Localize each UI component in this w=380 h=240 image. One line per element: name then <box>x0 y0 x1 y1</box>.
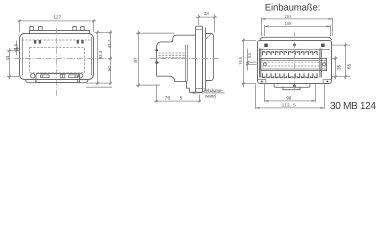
svg-text:41.7: 41.7 <box>107 39 112 48</box>
dim 65 extensions <box>332 44 350 46</box>
inner verticals before flange <box>186 45 188 82</box>
hinge tab 1 <box>30 27 34 31</box>
svg-text:93.3: 93.3 <box>98 50 103 59</box>
terminal clamps bottom row <box>262 73 317 77</box>
dim 3.5 extension lines left <box>7 49 19 51</box>
lid top strip <box>30 31 90 34</box>
svg-text:44: 44 <box>5 55 10 60</box>
bottom latch bar <box>36 74 80 83</box>
hinge hook tooth 1 <box>34 40 36 44</box>
dim 110 line <box>262 18 333 20</box>
dim 127 tick right <box>92 20 94 22</box>
svg-text:110: 110 <box>284 14 291 19</box>
dim 127 extension right <box>93 20 95 33</box>
gehaeusewand leader arrow <box>192 92 196 94</box>
side profile lid outline <box>157 35 197 76</box>
bottom foot right <box>323 80 331 84</box>
dim right mid extension (latch) <box>86 82 112 84</box>
dim 65 line <box>345 43 347 80</box>
dim 87 line <box>138 31 140 88</box>
gehaeusewand leader line <box>192 92 225 94</box>
svg-text:3.5: 3.5 <box>13 43 18 50</box>
back box behind wall <box>206 34 214 81</box>
svg-text:Einbaumaße:: Einbaumaße: <box>265 3 320 14</box>
wall lines <box>203 28 206 91</box>
back box corner hatch <box>206 34 212 40</box>
inst box outline <box>258 41 332 84</box>
inst vertical centerline <box>294 32 296 92</box>
dim 35 line <box>335 56 337 79</box>
dim 3.5 line <box>16 41 18 56</box>
dim 65 ticks <box>344 44 346 78</box>
dim 112.5 line <box>256 107 325 109</box>
inst box top raised lip <box>260 37 332 40</box>
bottom right screw tab <box>78 80 88 83</box>
latch slot right <box>69 75 78 78</box>
dim 87 ticks <box>137 32 139 86</box>
latch center detail <box>60 74 65 78</box>
svg-text:76.5: 76.5 <box>238 56 243 65</box>
dim 76.5 extension left <box>156 84 158 102</box>
hinge tab 4 <box>81 27 85 31</box>
svg-text:wand: wand <box>205 94 216 99</box>
dim 44 line <box>9 48 11 79</box>
dim 3.5 ticks <box>15 47 17 52</box>
dim 127 extension left <box>19 20 21 33</box>
bottom center tab inner <box>283 87 300 89</box>
bottom center tab outer <box>274 84 310 88</box>
svg-text:98: 98 <box>286 96 291 101</box>
dim 127 line <box>18 20 97 22</box>
dim 3.5 right-view ticks <box>246 61 248 66</box>
terminal end plate right <box>320 49 321 78</box>
dim 112.5 extensions <box>256 84 325 109</box>
latch slot left <box>41 75 50 78</box>
dim 76.5 right-view ticks <box>242 39 244 84</box>
svg-text:105: 105 <box>285 21 293 26</box>
dim 112.5 arrows <box>256 107 325 109</box>
side view 87 top extension <box>136 32 174 34</box>
svg-text:50: 50 <box>107 66 112 71</box>
dim 76.5 right-view extensions <box>242 41 257 84</box>
horizontal centerline front view <box>15 58 113 60</box>
dim 98 extensions <box>265 84 316 102</box>
svg-text:3.5: 3.5 <box>247 52 252 58</box>
dim 35 ticks <box>334 57 336 78</box>
dim 28 line with overhangs <box>196 16 218 18</box>
dim 105 arrows <box>265 25 331 27</box>
dim 28 extension left <box>198 14 200 25</box>
dim 44 ticks <box>8 50 10 78</box>
dim 93.3 / 41.7 top extension <box>95 32 113 34</box>
hidden opening dashed rect <box>30 48 85 73</box>
terminal end plate left <box>259 49 260 78</box>
svg-text:28: 28 <box>204 11 210 16</box>
terminal bar screw right <box>323 63 326 66</box>
hidden socket dashed lines <box>159 53 185 58</box>
dim 127 tick left <box>18 20 20 22</box>
svg-text:112. 5: 112. 5 <box>282 103 296 108</box>
hinge hook tooth 2 <box>39 40 41 44</box>
dim 110 extensions <box>262 18 333 37</box>
screw top left <box>264 44 267 47</box>
hinge tab 3 <box>73 27 77 31</box>
dim 76.5 line <box>154 100 202 102</box>
side profile lid bottom and box bottom <box>157 76 196 92</box>
dim 93.3 ticks <box>96 31 98 84</box>
hidden lid edge dashed <box>22 39 93 41</box>
hinge tab 2 <box>39 27 43 31</box>
front view inner wall line left <box>22 37 24 75</box>
svg-text:87: 87 <box>133 57 138 63</box>
terminal bar screw left <box>263 63 266 66</box>
flange plate cap lines <box>196 30 203 89</box>
top center mark <box>293 43 296 47</box>
terminal clamps top row <box>262 52 317 55</box>
bottom left screw tab <box>26 80 36 83</box>
inst inner top line <box>259 49 330 51</box>
dim 93.3 line <box>97 31 99 85</box>
dim 76.5 right-view line <box>243 39 245 88</box>
hinge pin top <box>155 49 158 51</box>
front view inner wall line right <box>91 37 93 75</box>
bottom right screw circle <box>78 74 82 78</box>
bottom foot left mark <box>261 81 263 83</box>
dim 110 arrows <box>262 18 333 20</box>
terminal bar dashed mid line <box>262 62 327 66</box>
bottom left screw circle <box>31 74 35 78</box>
front view body outline <box>20 34 94 80</box>
vertical centerline front view <box>56 28 58 97</box>
bottom foot left <box>258 80 266 84</box>
side view 87 bottom extension <box>136 84 160 86</box>
svg-text:127: 127 <box>54 14 62 19</box>
svg-text:35: 35 <box>337 65 342 71</box>
flange plate <box>196 26 203 92</box>
dim 28 ticks <box>198 16 216 18</box>
dim 35 extensions <box>332 59 350 77</box>
svg-text:30 MB 124: 30 MB 124 <box>330 101 376 112</box>
bottom foot right mark <box>326 81 328 83</box>
svg-text:65: 65 <box>346 64 351 70</box>
terminal bar inner lines <box>261 61 327 70</box>
dim 76.5 extension right <box>199 95 201 103</box>
svg-text:5: 5 <box>180 95 183 100</box>
dim 28 extension right <box>214 14 216 32</box>
dim 3.5 right-view line <box>247 49 249 71</box>
dim 44 extension bottom <box>7 76 19 78</box>
dim 3.5 right-view extensions <box>246 62 257 64</box>
hinge hook tooth 3 <box>77 40 79 44</box>
svg-text:76.: 76. <box>165 95 172 100</box>
dim right bottom extension <box>86 86 112 88</box>
side view centerline <box>150 58 219 60</box>
dim 41.7 / 50 ticks <box>109 31 111 84</box>
screw top right <box>321 44 324 47</box>
dim 98 line <box>265 100 316 102</box>
latch pin bottom <box>155 62 158 64</box>
dim 41.7 / 50 line <box>110 31 112 85</box>
dim 76.5 ticks <box>155 100 200 102</box>
dim 105 extensions <box>265 25 331 36</box>
dim 105 line <box>265 25 331 27</box>
hinge hook tooth 4 <box>81 40 83 44</box>
bottom center mark <box>293 84 296 88</box>
dim 98 arrows <box>265 100 316 102</box>
terminal bar <box>261 59 327 71</box>
